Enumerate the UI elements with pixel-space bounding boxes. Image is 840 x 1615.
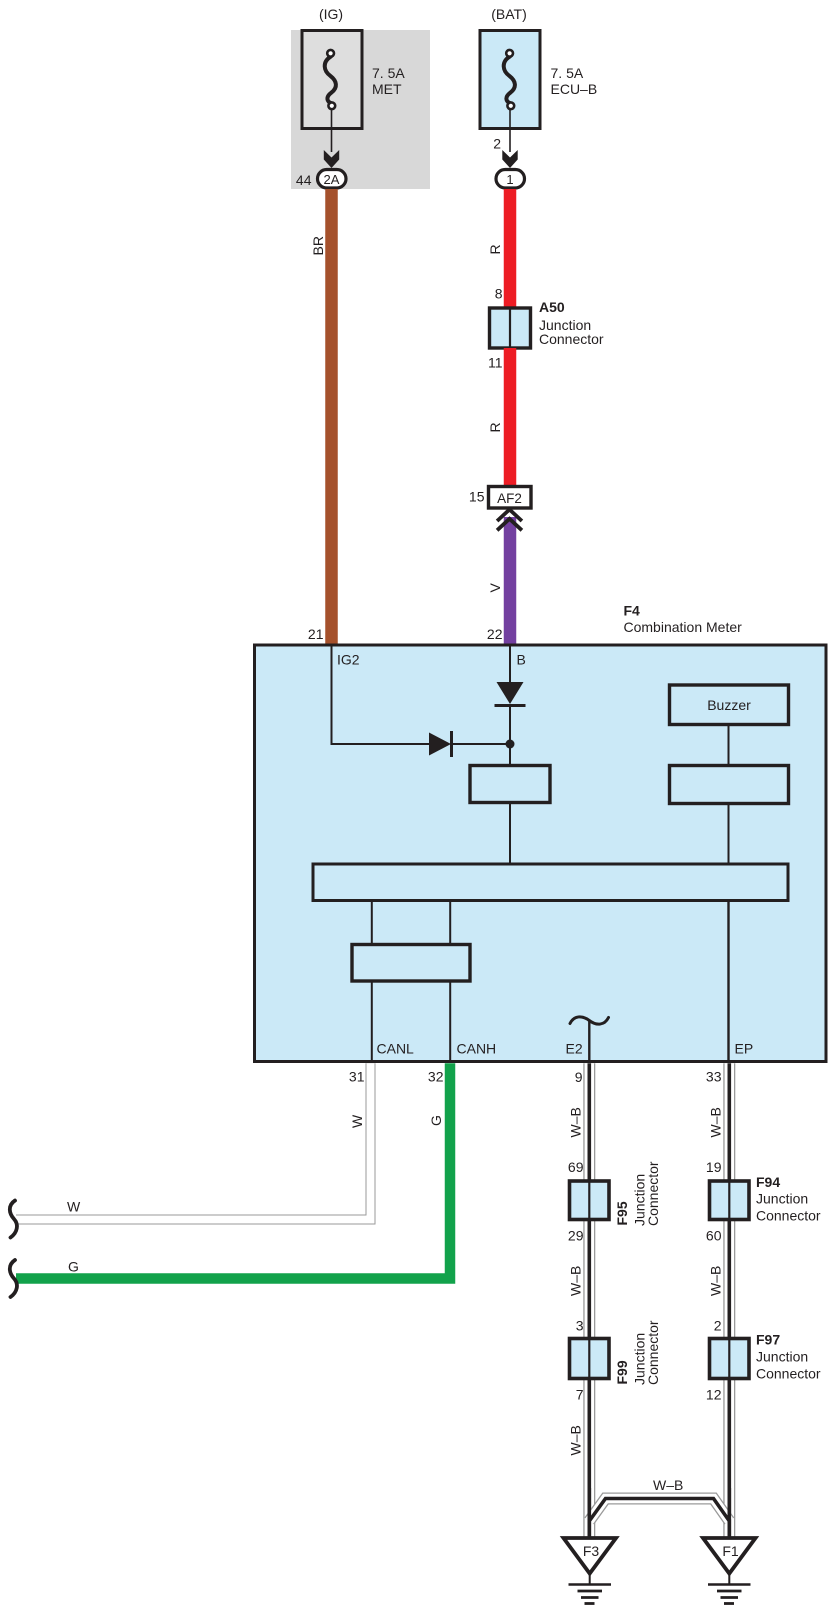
ground symbol F3 bbox=[569, 1572, 612, 1604]
F4 title bbox=[624, 603, 743, 636]
wire W-B vertical stripes over jumper crossing bbox=[589, 1488, 729, 1537]
svg-text:22: 22 bbox=[487, 626, 503, 642]
svg-text:7. 5A: 7. 5A bbox=[372, 65, 405, 81]
diode D1 (vertical) bbox=[495, 682, 526, 706]
pin 9 label bbox=[575, 1069, 583, 1085]
wire W-B jumper label bbox=[653, 1477, 683, 1493]
svg-text:8: 8 bbox=[495, 286, 503, 302]
pin 21 label bbox=[308, 626, 324, 642]
svg-text:60: 60 bbox=[706, 1228, 722, 1244]
wire R (red) A50 to AF2 bbox=[504, 348, 517, 486]
junction connector A50 bbox=[490, 308, 531, 348]
wire color label R bbox=[487, 422, 503, 432]
pin 44 label bbox=[296, 172, 312, 188]
svg-text:32: 32 bbox=[428, 1069, 444, 1085]
wire bus to CAN box right bbox=[449, 900, 451, 944]
pin 8 label bbox=[495, 286, 503, 302]
wire color label R bbox=[487, 244, 503, 254]
pin 3 label bbox=[576, 1318, 584, 1334]
svg-text:Junction: Junction bbox=[756, 1191, 808, 1207]
svg-text:F4: F4 bbox=[624, 603, 641, 619]
connector AF2 bbox=[489, 487, 532, 509]
svg-text:V: V bbox=[487, 583, 503, 593]
svg-text:G: G bbox=[428, 1115, 444, 1126]
svg-text:IG2: IG2 bbox=[337, 652, 360, 668]
gray block (fuse box shading) bbox=[291, 30, 430, 189]
svg-text:W–B: W–B bbox=[653, 1477, 683, 1493]
fuse ECU-B symbol bbox=[504, 50, 515, 109]
CAN transceiver box bbox=[352, 945, 470, 982]
wire color label BR bbox=[310, 236, 326, 255]
svg-text:Connector: Connector bbox=[756, 1208, 821, 1224]
svg-text:W: W bbox=[67, 1199, 81, 1215]
buzzer box bbox=[670, 685, 789, 725]
svg-text:F94: F94 bbox=[756, 1174, 780, 1190]
pin 69 label bbox=[568, 1159, 584, 1175]
svg-text:19: 19 bbox=[706, 1159, 722, 1175]
wire CANH internal bbox=[449, 981, 451, 1061]
pin 60 label bbox=[706, 1228, 722, 1244]
wire W (white) CANL bbox=[16, 1063, 371, 1219]
fuse value label 7.5A ECU-B bbox=[551, 65, 598, 97]
wire R (red) connector 1 to A50 bbox=[504, 189, 517, 307]
wire color label W (horizontal) bbox=[67, 1199, 81, 1215]
wire buzzer to driver bbox=[728, 725, 730, 766]
connector oval 1 bbox=[496, 170, 525, 189]
svg-text:7: 7 bbox=[576, 1387, 584, 1403]
svg-text:11: 11 bbox=[488, 355, 503, 371]
F99 label (rotated) bbox=[614, 1320, 661, 1385]
F95 label (rotated) bbox=[614, 1161, 661, 1226]
wire B internal bbox=[509, 646, 511, 682]
pin name EP bbox=[735, 1041, 754, 1057]
svg-text:CANL: CANL bbox=[377, 1041, 415, 1057]
svg-text:Connector: Connector bbox=[645, 1320, 661, 1385]
pin 32 label bbox=[428, 1069, 444, 1085]
E2 squiggle bbox=[570, 1017, 609, 1024]
svg-text:21: 21 bbox=[308, 626, 324, 642]
pin 29 label bbox=[568, 1228, 584, 1244]
svg-text:MET: MET bbox=[372, 81, 402, 97]
svg-text:ECU–B: ECU–B bbox=[551, 81, 598, 97]
wire bus to CAN box left bbox=[371, 900, 373, 944]
label (IG) bbox=[319, 6, 343, 22]
svg-text:E2: E2 bbox=[566, 1041, 583, 1057]
wire regulator to bus bbox=[509, 803, 511, 865]
svg-text:2A: 2A bbox=[324, 172, 340, 187]
svg-text:Buzzer: Buzzer bbox=[707, 697, 751, 713]
wire color label W-B bbox=[568, 1107, 584, 1137]
svg-text:2: 2 bbox=[714, 1318, 722, 1334]
arrow into connector 1 bbox=[502, 150, 517, 168]
svg-text:W–B: W–B bbox=[708, 1107, 724, 1137]
pin 15 label bbox=[469, 489, 485, 505]
label (BAT) bbox=[491, 6, 527, 22]
pin 22 label bbox=[487, 626, 503, 642]
svg-text:F99: F99 bbox=[614, 1360, 630, 1384]
wire BR (brown) 2A to pin 21 bbox=[325, 189, 338, 644]
svg-text:Junction: Junction bbox=[756, 1349, 808, 1365]
svg-text:R: R bbox=[487, 244, 503, 254]
diode D2 (horizontal) bbox=[429, 731, 452, 757]
pin name CANH bbox=[457, 1041, 497, 1057]
svg-text:R: R bbox=[487, 422, 503, 432]
wire color label W-B bbox=[708, 1266, 724, 1296]
svg-text:Combination Meter: Combination Meter bbox=[624, 619, 743, 635]
junction connector F99 bbox=[570, 1339, 610, 1379]
svg-text:BR: BR bbox=[310, 236, 326, 255]
svg-text:3: 3 bbox=[576, 1318, 584, 1334]
wire color label W-B bbox=[708, 1107, 724, 1137]
svg-text:(IG): (IG) bbox=[319, 6, 343, 22]
pin name E2 bbox=[566, 1041, 583, 1057]
wire fuse to connector 1 bbox=[509, 110, 511, 153]
pin 31 label bbox=[349, 1069, 365, 1085]
svg-text:CANH: CANH bbox=[457, 1041, 497, 1057]
pin 12 label bbox=[706, 1387, 722, 1403]
wire E2 internal bbox=[588, 1021, 590, 1061]
svg-text:44: 44 bbox=[296, 172, 312, 188]
svg-text:F3: F3 bbox=[583, 1543, 600, 1559]
pin 2 label bbox=[714, 1318, 722, 1334]
svg-text:EP: EP bbox=[735, 1041, 754, 1057]
bus bar bbox=[313, 864, 788, 901]
arrow into connector 2A bbox=[324, 150, 339, 168]
ground triangle F3 bbox=[564, 1538, 617, 1574]
svg-text:W–B: W–B bbox=[568, 1425, 584, 1455]
break symbol G wire bbox=[10, 1260, 17, 1297]
wire V (violet) AF2 to pin 22 bbox=[504, 517, 517, 644]
shield chevrons into AF2 bbox=[497, 510, 522, 531]
wire EP internal bbox=[727, 900, 729, 1061]
pin 11 label bbox=[488, 355, 503, 371]
svg-text:1: 1 bbox=[506, 172, 513, 187]
F97 label bbox=[756, 1332, 821, 1382]
pin 19 label bbox=[706, 1159, 722, 1175]
svg-text:W–B: W–B bbox=[568, 1107, 584, 1137]
svg-text:Connector: Connector bbox=[539, 331, 604, 347]
pin name IG2 bbox=[337, 652, 360, 668]
svg-text:9: 9 bbox=[575, 1069, 583, 1085]
connector oval 2A bbox=[318, 170, 347, 189]
wire W-B jumper between columns bbox=[589, 1499, 729, 1522]
wire fuse to connector 2A bbox=[331, 110, 333, 153]
pin name CANL bbox=[377, 1041, 415, 1057]
svg-text:W–B: W–B bbox=[708, 1266, 724, 1296]
svg-text:15: 15 bbox=[469, 489, 485, 505]
pin 2 label bbox=[493, 136, 501, 152]
svg-text:F95: F95 bbox=[614, 1201, 630, 1225]
junction connector F94 bbox=[710, 1181, 750, 1220]
wire diode to node to box bbox=[509, 705, 511, 764]
svg-text:29: 29 bbox=[568, 1228, 584, 1244]
ground symbol F1 bbox=[708, 1572, 751, 1604]
wire diode to node bbox=[452, 743, 511, 745]
wire color label G (vertical) bbox=[428, 1115, 444, 1126]
svg-text:Connector: Connector bbox=[645, 1161, 661, 1226]
svg-text:31: 31 bbox=[349, 1069, 365, 1085]
svg-text:AF2: AF2 bbox=[497, 491, 522, 506]
pin 7 label bbox=[576, 1387, 584, 1403]
wire color label W-B bbox=[568, 1266, 584, 1296]
wire color label G (horizontal) bbox=[68, 1259, 79, 1275]
svg-text:12: 12 bbox=[706, 1387, 722, 1403]
internal box (regulator) bbox=[470, 766, 550, 803]
wire color label V bbox=[487, 583, 503, 593]
fuse F-MET rectangle bbox=[302, 31, 362, 129]
junction connector F97 bbox=[710, 1339, 750, 1379]
break symbol W wire bbox=[10, 1201, 17, 1238]
node junction dot bbox=[506, 740, 515, 749]
svg-text:33: 33 bbox=[706, 1069, 722, 1085]
wire G (green) CANH bbox=[16, 1063, 450, 1278]
F94 label bbox=[756, 1174, 821, 1224]
svg-text:2: 2 bbox=[493, 136, 501, 152]
svg-text:W–B: W–B bbox=[568, 1266, 584, 1296]
wire W-B E2 to ground F3 bbox=[583, 1063, 595, 1537]
wire color label W (vertical) bbox=[349, 1114, 365, 1128]
wire W-B EP to ground F1 bbox=[723, 1063, 735, 1537]
wire IG2 internal bbox=[332, 646, 430, 744]
fuse MET symbol bbox=[325, 50, 336, 109]
pin 33 label bbox=[706, 1069, 722, 1085]
svg-text:(BAT): (BAT) bbox=[491, 6, 527, 22]
wire color label W-B bbox=[568, 1425, 584, 1455]
junction connector F95 bbox=[570, 1181, 610, 1220]
wire driver to bus bbox=[728, 804, 730, 865]
svg-text:F97: F97 bbox=[756, 1332, 780, 1348]
svg-text:69: 69 bbox=[568, 1159, 584, 1175]
svg-text:W: W bbox=[349, 1114, 365, 1128]
A50 label bbox=[539, 299, 604, 347]
fuse ECU-B rectangle bbox=[480, 31, 540, 129]
svg-text:F1: F1 bbox=[722, 1543, 739, 1559]
wire CANL internal bbox=[371, 981, 373, 1061]
svg-text:B: B bbox=[517, 652, 526, 668]
ground triangle F1 bbox=[703, 1538, 756, 1574]
svg-text:7. 5A: 7. 5A bbox=[551, 65, 584, 81]
pin name B bbox=[517, 652, 526, 668]
combination meter body bbox=[255, 645, 827, 1062]
svg-text:Connector: Connector bbox=[756, 1366, 821, 1382]
svg-text:G: G bbox=[68, 1259, 79, 1275]
fuse value label 7.5A MET bbox=[372, 65, 405, 97]
buzzer driver box bbox=[670, 766, 789, 804]
svg-text:A50: A50 bbox=[539, 299, 565, 315]
